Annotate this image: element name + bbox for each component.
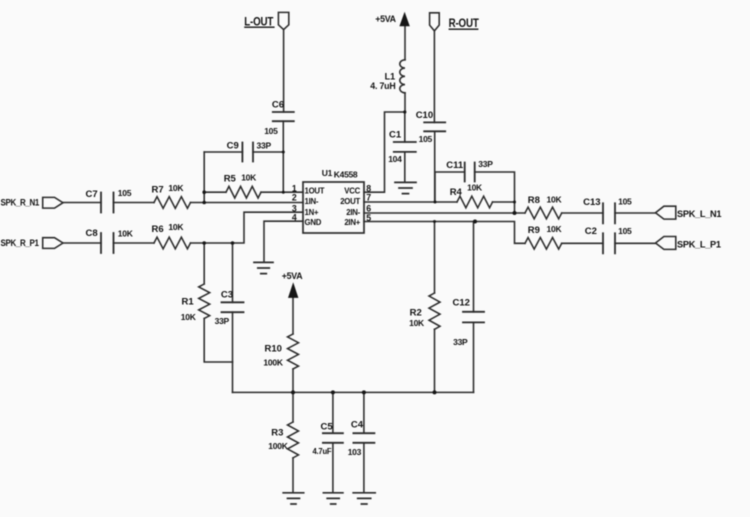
svg-text:10K: 10K [168,183,184,193]
svg-text:C2: C2 [585,226,597,237]
svg-text:R7: R7 [152,184,164,195]
svg-text:4.7uF: 4.7uF [313,447,332,456]
svg-text:105: 105 [264,126,278,136]
svg-text:C7: C7 [86,189,98,200]
svg-text:10K: 10K [168,222,184,232]
svg-text:2OUT: 2OUT [340,197,360,206]
svg-text:10K: 10K [181,312,197,322]
svg-text:1OUT: 1OUT [305,187,325,196]
svg-text:R9: R9 [528,225,540,236]
svg-text:2IN-: 2IN- [346,208,360,217]
svg-text:10K: 10K [467,183,483,193]
svg-text:105: 105 [419,134,433,144]
svg-text:2: 2 [292,193,297,203]
svg-text:C1: C1 [389,129,402,140]
svg-text:5: 5 [366,213,371,223]
svg-text:R3: R3 [271,427,283,438]
svg-text:10K: 10K [547,224,563,234]
svg-text:L1: L1 [385,72,396,82]
svg-text:C8: C8 [86,228,98,239]
svg-text:1N+: 1N+ [305,208,319,217]
svg-text:K4558: K4558 [334,170,358,180]
svg-text:C10: C10 [416,110,433,121]
svg-text:SPK_L_N1: SPK_L_N1 [677,209,721,219]
svg-text:33P: 33P [257,140,272,150]
svg-text:C4: C4 [351,420,364,431]
svg-text:6: 6 [366,204,371,214]
svg-text:R6: R6 [152,224,164,235]
svg-text:C5: C5 [321,422,334,433]
svg-text:R1: R1 [182,297,195,308]
svg-text:10K: 10K [409,318,425,328]
svg-text:U1: U1 [322,168,333,178]
svg-text:+5VA: +5VA [282,271,303,281]
svg-text:GND: GND [305,218,322,227]
svg-text:R2: R2 [410,307,422,318]
svg-text:R4: R4 [450,187,463,198]
svg-text:10K: 10K [547,194,563,204]
svg-text:C6: C6 [272,99,284,110]
svg-text:C12: C12 [453,298,470,309]
svg-text:R-OUT: R-OUT [449,17,480,30]
svg-text:C11: C11 [446,160,464,171]
svg-text:10K: 10K [241,172,257,182]
svg-text:33P: 33P [478,159,493,169]
svg-text:33P: 33P [453,337,468,347]
svg-text:10K: 10K [118,228,134,238]
svg-text:105: 105 [618,226,632,236]
svg-text:100K: 100K [268,441,288,451]
svg-text:SPK_R_N1: SPK_R_N1 [1,197,40,208]
svg-text:105: 105 [618,196,632,206]
svg-text:7: 7 [366,193,371,203]
svg-text:100K: 100K [263,358,283,368]
svg-text:C9: C9 [227,141,239,152]
svg-text:SPK_L_P1: SPK_L_P1 [677,239,721,249]
svg-text:SPK_R_P1: SPK_R_P1 [1,237,40,248]
svg-text:C3: C3 [221,290,233,301]
svg-text:4. 7uH: 4. 7uH [370,81,395,91]
svg-text:103: 103 [348,447,362,457]
svg-text:VCC: VCC [344,187,360,196]
svg-text:1IN-: 1IN- [305,197,319,206]
svg-text:R5: R5 [224,173,237,184]
svg-text:+5VA: +5VA [375,14,396,24]
svg-text:R10: R10 [265,344,282,355]
svg-text:105: 105 [118,188,132,198]
svg-text:4: 4 [292,213,297,223]
svg-text:2IN+: 2IN+ [344,218,360,227]
svg-text:C13: C13 [583,197,600,208]
svg-text:104: 104 [388,154,402,164]
svg-text:R8: R8 [528,195,540,206]
svg-text:33P: 33P [215,316,230,326]
